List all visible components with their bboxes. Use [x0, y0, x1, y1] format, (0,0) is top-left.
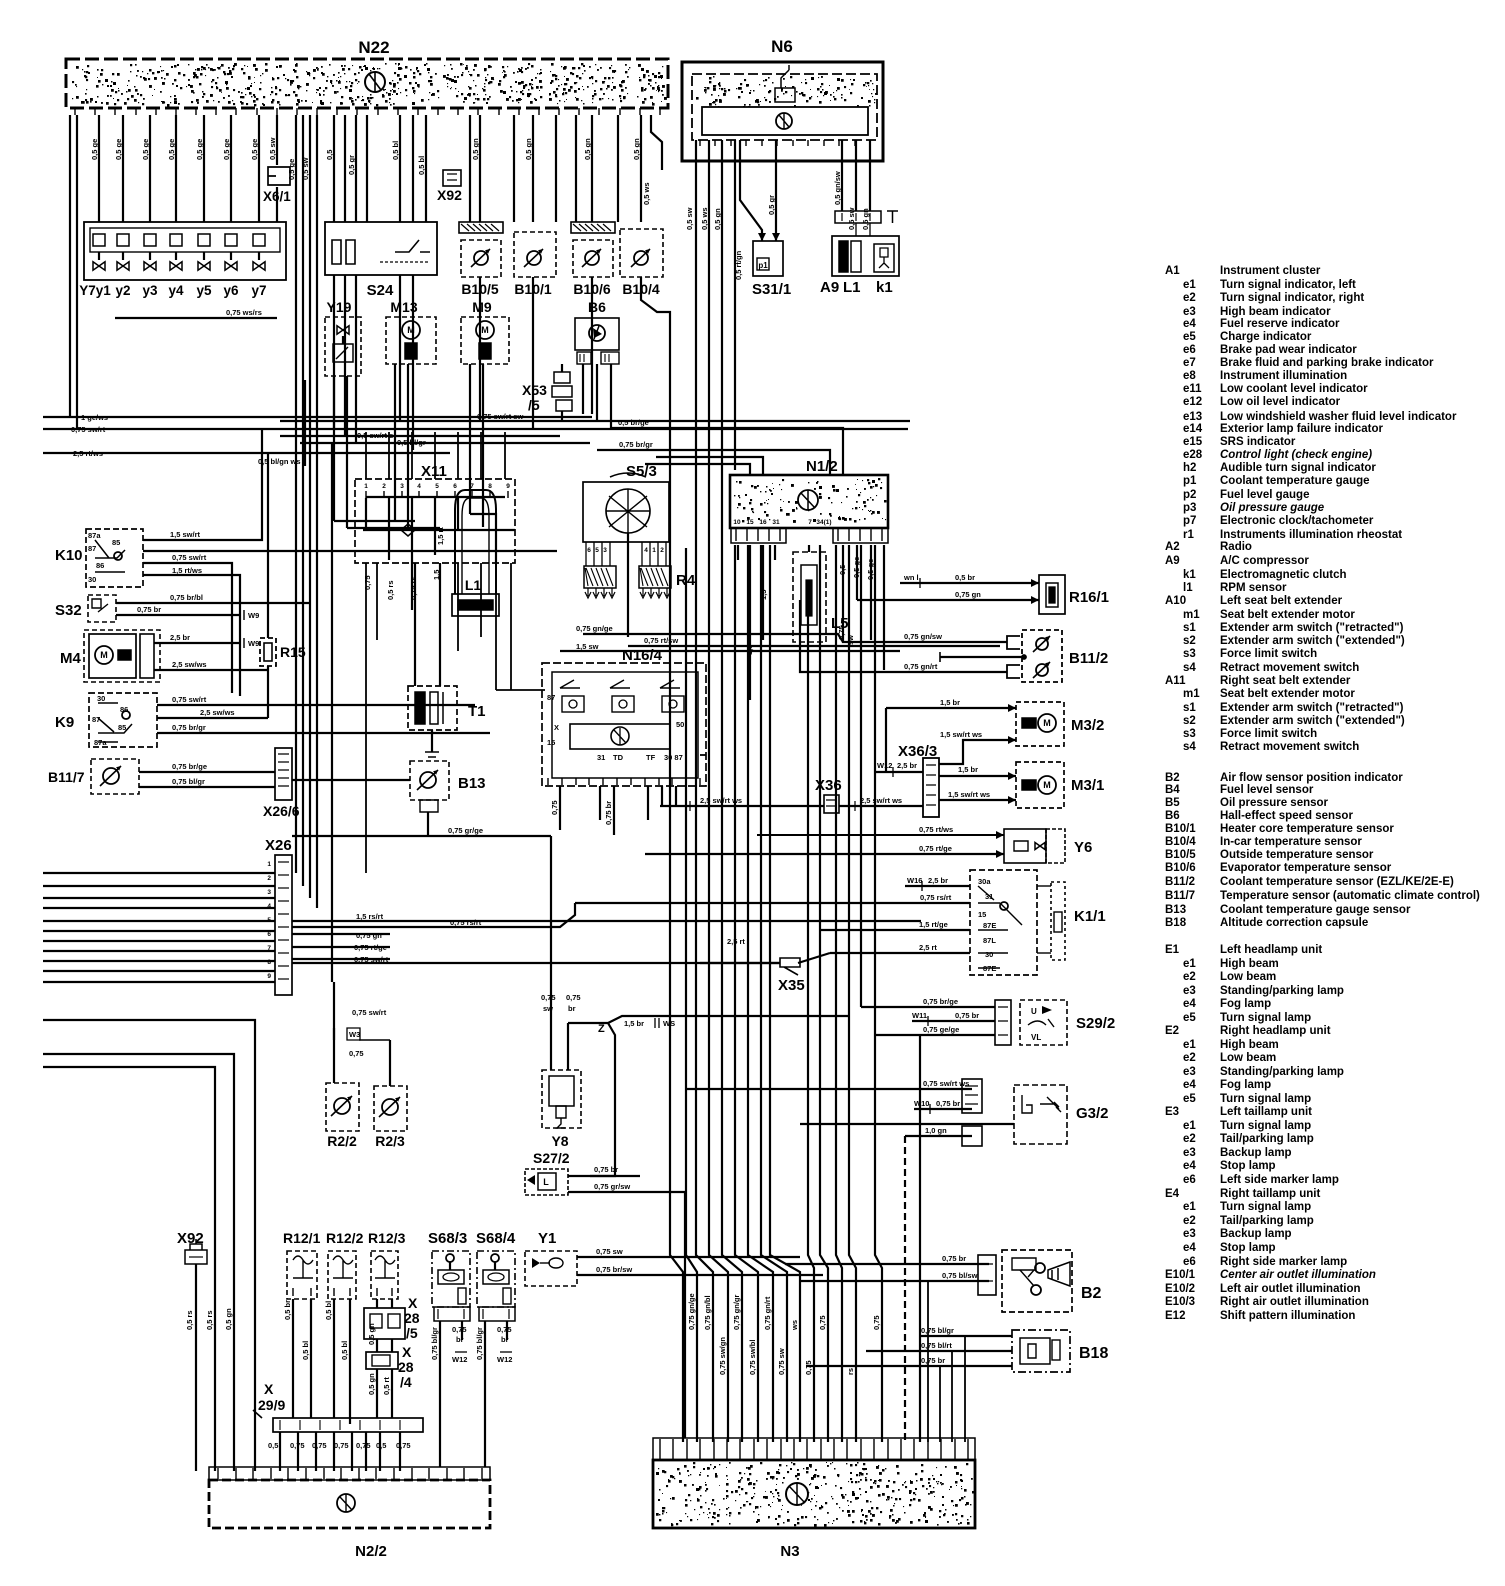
- svg-text:s2: s2: [1183, 715, 1196, 727]
- svg-text:0,5 ge: 0,5 ge: [222, 139, 231, 160]
- wire 2,5 rt/ws feeder: [43, 452, 450, 454]
- svg-text:e4: e4: [1183, 1242, 1196, 1254]
- svg-text:2,5 br: 2,5 br: [170, 633, 190, 642]
- svg-text:Left air outlet illumination: Left air outlet illumination: [1220, 1283, 1361, 1295]
- svg-text:Retract movement switch: Retract movement switch: [1220, 662, 1359, 674]
- svg-text:B11/2: B11/2: [1165, 876, 1195, 888]
- outside temperature sensor B10/5: [459, 222, 503, 233]
- wire 1 ge/ws feeder: [43, 416, 592, 418]
- svg-text:High beam indicator: High beam indicator: [1220, 306, 1331, 318]
- svg-text:0,75 rs: 0,75 rs: [409, 576, 418, 600]
- svg-text:N1/2: N1/2: [806, 458, 838, 475]
- svg-text:Altitude correction capsule: Altitude correction capsule: [1220, 917, 1368, 929]
- connector X92 upper: [469, 115, 471, 222]
- svg-text:Instrument illumination: Instrument illumination: [1220, 370, 1347, 382]
- svg-text:/5: /5: [406, 1325, 418, 1341]
- svg-text:A/C compressor: A/C compressor: [1220, 555, 1309, 567]
- svg-text:0,5 bl: 0,5 bl: [324, 1301, 333, 1320]
- svg-text:0,5 gn: 0,5 gn: [524, 138, 533, 160]
- svg-text:7: 7: [470, 483, 474, 490]
- svg-text:1,5 br: 1,5 br: [624, 1019, 644, 1028]
- relay K1/1: [970, 870, 1037, 975]
- svg-text:Fuel level gauge: Fuel level gauge: [1220, 489, 1309, 501]
- wires N6 down to S31/1: [740, 140, 762, 241]
- svg-text:0,5: 0,5: [268, 1441, 278, 1450]
- svg-text:0,5 sw: 0,5 sw: [685, 207, 694, 230]
- svg-text:0,5 ge: 0,5 ge: [287, 159, 296, 180]
- left feeder bus wires: [43, 872, 275, 874]
- svg-text:L: L: [543, 1177, 549, 1187]
- svg-text:0,75 rt/ge: 0,75 rt/ge: [919, 844, 952, 853]
- svg-text:R16/1: R16/1: [1069, 589, 1109, 606]
- seat belt extender motor M3/2: [1016, 702, 1064, 746]
- svg-text:X: X: [554, 723, 559, 732]
- svg-text:Force limit switch: Force limit switch: [1220, 728, 1317, 740]
- wire to R2/2: [333, 982, 335, 1083]
- svg-text:p1: p1: [1183, 475, 1197, 487]
- svg-text:Turn signal indicator, right: Turn signal indicator, right: [1220, 292, 1364, 304]
- svg-text:y3: y3: [142, 283, 158, 298]
- svg-text:N22: N22: [358, 38, 389, 57]
- wire 0,75 gn/ge: [583, 634, 843, 642]
- wires Y1 right: [577, 1256, 800, 1258]
- svg-text:1,5: 1,5: [745, 645, 754, 655]
- wires M3/2: [1008, 704, 1016, 804]
- seat belt extender motor M3/1: [1016, 762, 1064, 808]
- svg-text:0,75 br: 0,75 br: [942, 1254, 966, 1263]
- wire 2,5 rt to X35: [700, 962, 780, 964]
- svg-text:1,5: 1,5: [759, 590, 768, 600]
- svg-text:Instruments illumination rheos: Instruments illumination rheostat: [1220, 529, 1402, 541]
- svg-text:0,75: 0,75: [334, 1441, 349, 1450]
- svg-text:87: 87: [547, 693, 555, 702]
- svg-text:Air flow sensor position indic: Air flow sensor position indicator: [1220, 772, 1403, 784]
- svg-text:N3: N3: [780, 1543, 799, 1560]
- svg-text:Fog lamp: Fog lamp: [1220, 1079, 1271, 1091]
- svg-text:0,75: 0,75: [804, 1360, 813, 1375]
- connector X35: [780, 958, 800, 975]
- X11 horizontal bus: [366, 496, 505, 498]
- svg-text:Audible turn signal indicator: Audible turn signal indicator: [1220, 462, 1376, 474]
- svg-text:0,5 gn: 0,5 gn: [471, 138, 480, 160]
- svg-text:0,75 sw/rt: 0,75 sw/rt: [172, 695, 207, 704]
- svg-text:0,5 gn: 0,5 gn: [367, 1323, 376, 1345]
- svg-text:E10/2: E10/2: [1165, 1283, 1195, 1295]
- svg-text:e1: e1: [1183, 1039, 1196, 1051]
- svg-text:0,5 bl: 0,5 bl: [391, 141, 400, 160]
- svg-text:0,5 ge: 0,5 ge: [141, 139, 150, 160]
- svg-text:0,75 br/gr: 0,75 br/gr: [619, 440, 653, 449]
- svg-text:31: 31: [772, 519, 780, 526]
- svg-text:30: 30: [97, 694, 105, 703]
- svg-text:Turn signal indicator, left: Turn signal indicator, left: [1220, 279, 1356, 291]
- svg-text:0,75 rs/rt: 0,75 rs/rt: [920, 893, 952, 902]
- N16/4 bottom wire drops: [559, 786, 561, 830]
- svg-text:e1: e1: [1183, 1201, 1196, 1213]
- svg-text:e5: e5: [1183, 1012, 1196, 1024]
- corridor wire 8: [761, 545, 787, 1442]
- svg-text:M: M: [481, 325, 489, 335]
- wire N22 right pins to corridor: [651, 115, 662, 170]
- svg-text:Electronic clock/tachometer: Electronic clock/tachometer: [1220, 515, 1374, 527]
- A/C compressor A9 with clutch k1: [832, 236, 899, 276]
- svg-text:Tail/parking lamp: Tail/parking lamp: [1220, 1215, 1314, 1227]
- svg-text:0,75: 0,75: [497, 1325, 512, 1334]
- left edge feeder verticals: [69, 115, 71, 417]
- svg-text:R2/2: R2/2: [327, 1133, 357, 1149]
- svg-text:Force limit switch: Force limit switch: [1220, 648, 1317, 660]
- svg-text:0,75 sw/bl: 0,75 sw/bl: [748, 1340, 757, 1375]
- svg-text:0,5 ws: 0,5 ws: [700, 207, 709, 230]
- in-car temperature sensor B10/4: [620, 229, 663, 277]
- svg-text:Y6: Y6: [1074, 839, 1092, 856]
- wire 2,5 sw/rt ws through X36: [660, 805, 824, 807]
- long mid vertical drops to X26 bus: [295, 115, 297, 873]
- long wire left-bottom 2: [43, 1054, 234, 1471]
- valve unit Y8: [542, 1070, 581, 1128]
- svg-text:S32: S32: [55, 602, 82, 619]
- heater core temperature sensor B10/1: [514, 232, 556, 277]
- svg-text:0,75 gn/ge: 0,75 gn/ge: [576, 624, 613, 633]
- svg-text:A9: A9: [820, 279, 839, 296]
- svg-text:87: 87: [92, 715, 100, 724]
- svg-text:e4: e4: [1183, 1160, 1196, 1172]
- svg-text:4: 4: [417, 483, 421, 490]
- svg-text:1,0 gn: 1,0 gn: [925, 1126, 947, 1135]
- wires below N1/2 left group: [737, 545, 739, 560]
- svg-text:Oil pressure sensor: Oil pressure sensor: [1220, 797, 1329, 809]
- svg-text:Z: Z: [598, 1023, 605, 1035]
- corridor wire 14: [860, 545, 862, 1007]
- svg-text:e28: e28: [1183, 449, 1203, 461]
- svg-text:3: 3: [267, 889, 271, 896]
- wires X29/9 down to N2/2: [279, 1432, 281, 1471]
- wire S5/3 center down: [627, 533, 629, 637]
- svg-text:0,75 gn/sw: 0,75 gn/sw: [904, 632, 942, 641]
- bus wires continuing to right side: [292, 962, 780, 964]
- svg-text:50: 50: [676, 720, 684, 729]
- svg-text:0,75: 0,75: [349, 1049, 364, 1058]
- svg-text:0,5 sw: 0,5 sw: [301, 157, 310, 180]
- wire drops B10 sensors down: [479, 277, 481, 421]
- svg-text:85: 85: [112, 538, 120, 547]
- svg-text:E2: E2: [1165, 1025, 1179, 1037]
- svg-text:l1: l1: [1183, 582, 1193, 594]
- svg-text:L1: L1: [843, 279, 861, 296]
- svg-text:W16: W16: [907, 876, 922, 885]
- sensor R2/2: [326, 1083, 359, 1131]
- resistor R16/1: [900, 582, 1039, 584]
- wires X11 down: [365, 498, 367, 530]
- wire 0,5 bl/gr: [300, 442, 590, 444]
- svg-text:1,5 rt/ws: 1,5 rt/ws: [172, 566, 202, 575]
- mid vertical drops right of X11: [457, 563, 459, 651]
- svg-text:Charge indicator: Charge indicator: [1220, 331, 1312, 343]
- svg-text:e4: e4: [1183, 1079, 1196, 1091]
- svg-text:e14: e14: [1183, 423, 1203, 435]
- svg-text:Left taillamp unit: Left taillamp unit: [1220, 1106, 1312, 1118]
- svg-text:Y7y1: Y7y1: [79, 283, 111, 298]
- svg-text:0,75 rt/ws: 0,75 rt/ws: [919, 825, 953, 834]
- svg-text:wn l: wn l: [903, 573, 919, 582]
- svg-text:M: M: [1043, 718, 1051, 728]
- svg-text:E4: E4: [1165, 1188, 1180, 1200]
- svg-text:T1: T1: [468, 703, 486, 720]
- svg-text:M: M: [1043, 780, 1051, 790]
- wire links into T1 verticals: [334, 520, 415, 522]
- svg-text:Temperature sensor (automatic: Temperature sensor (automatic climate co…: [1220, 890, 1480, 902]
- wire S27/2 pin1: [568, 1175, 640, 1177]
- corridor wire 15: [875, 545, 882, 1442]
- long wire left-bottom 3: [43, 1067, 215, 1471]
- svg-text:X35: X35: [778, 977, 805, 994]
- svg-text:E3: E3: [1165, 1106, 1179, 1118]
- svg-text:0,5: 0,5: [838, 565, 847, 575]
- svg-text:0,75 bl/gr: 0,75 bl/gr: [475, 1327, 484, 1360]
- svg-text:p1: p1: [758, 261, 768, 270]
- sensor R2/3: [389, 1040, 391, 1086]
- svg-text:Center air outlet illumination: Center air outlet illumination: [1220, 1269, 1376, 1281]
- N6 pin row: [699, 140, 701, 146]
- wire Z down to S27/2: [590, 1023, 615, 1176]
- wire S27/2 pin2 0,75 gr/sw: [568, 1192, 685, 1438]
- wire B13 to X26/6: [292, 779, 410, 781]
- svg-text:E10/3: E10/3: [1165, 1296, 1195, 1308]
- svg-text:0,75 ge/ge: 0,75 ge/ge: [923, 1025, 959, 1034]
- svg-text:M4: M4: [60, 650, 81, 667]
- N3 bottom dashed note: [653, 1527, 975, 1529]
- svg-text:Turn signal lamp: Turn signal lamp: [1220, 1093, 1311, 1105]
- svg-text:X36: X36: [815, 777, 842, 794]
- wire drops B6 down: [582, 364, 584, 414]
- engine control module N3: [653, 1438, 975, 1460]
- wire drop X11 left down: [365, 563, 367, 873]
- ignition coil T1: [408, 686, 457, 730]
- svg-text:M9: M9: [472, 299, 492, 315]
- svg-text:s3: s3: [1183, 728, 1196, 740]
- svg-text:W10: W10: [914, 1099, 929, 1108]
- svg-text:/4: /4: [400, 1374, 412, 1390]
- svg-text:s1: s1: [1183, 622, 1196, 634]
- svg-text:s4: s4: [1183, 741, 1196, 753]
- svg-text:L1: L1: [465, 577, 482, 593]
- svg-text:0,5: 0,5: [376, 1441, 386, 1450]
- svg-text:X11: X11: [421, 463, 447, 480]
- svg-text:X6/1: X6/1: [263, 189, 291, 204]
- svg-text:86: 86: [96, 561, 104, 570]
- svg-text:Right air outlet illumination: Right air outlet illumination: [1220, 1296, 1369, 1308]
- wires down to Y8: [550, 836, 552, 1070]
- svg-text:0,75 sw/rt: 0,75 sw/rt: [172, 553, 207, 562]
- svg-text:2,5 sw/rt ws: 2,5 sw/rt ws: [700, 796, 742, 805]
- svg-text:sw: sw: [846, 635, 855, 645]
- svg-text:0,5 ge: 0,5 ge: [195, 139, 204, 160]
- svg-text:87: 87: [88, 544, 96, 553]
- svg-text:S68/4: S68/4: [476, 1230, 516, 1247]
- svg-text:e8: e8: [1183, 370, 1196, 382]
- svg-text:X26/6: X26/6: [263, 803, 300, 819]
- wire T1 down to ground: [431, 730, 433, 752]
- wire K1/1 right side: [1037, 885, 1051, 887]
- svg-text:y2: y2: [115, 283, 130, 298]
- svg-text:s3: s3: [1183, 648, 1196, 660]
- svg-text:Stop lamp: Stop lamp: [1220, 1160, 1276, 1172]
- svg-text:2,5 rt: 2,5 rt: [919, 943, 937, 952]
- coolant temperature gauge sensor B13: [410, 761, 449, 800]
- svg-text:0,75: 0,75: [837, 625, 846, 640]
- svg-text:W12: W12: [877, 761, 892, 770]
- X11 riser stubs to feeder lines: [365, 432, 367, 479]
- svg-text:r1: r1: [1183, 529, 1194, 541]
- svg-text:0,75 gn: 0,75 gn: [955, 590, 981, 599]
- svg-text:Turn signal lamp: Turn signal lamp: [1220, 1012, 1311, 1024]
- svg-text:M3/1: M3/1: [1071, 777, 1104, 794]
- svg-text:e3: e3: [1183, 985, 1196, 997]
- svg-text:Turn signal lamp: Turn signal lamp: [1220, 1120, 1311, 1132]
- svg-text:0,5 br/ge: 0,5 br/ge: [618, 418, 649, 427]
- svg-text:31: 31: [985, 892, 993, 901]
- wire X6/1 branch: [276, 115, 278, 165]
- long wire left-bottom 1: [43, 1020, 255, 1471]
- N1/2 lower pin connectors: [731, 528, 786, 543]
- svg-text:k1: k1: [1183, 569, 1196, 581]
- svg-text:87a: 87a: [88, 531, 101, 540]
- svg-text:0,75 gr/sw: 0,75 gr/sw: [594, 1182, 630, 1191]
- svg-text:1,5 sw/rt: 1,5 sw/rt: [170, 530, 201, 539]
- svg-text:p7: p7: [1183, 515, 1196, 527]
- svg-text:p2: p2: [1183, 489, 1196, 501]
- corridor wire 9: [770, 545, 800, 1442]
- svg-text:0,75 br/ge: 0,75 br/ge: [172, 762, 207, 771]
- svg-text:e2: e2: [1183, 1052, 1196, 1064]
- svg-text:0,75: 0,75: [363, 575, 372, 590]
- svg-text:B18: B18: [1079, 1345, 1108, 1362]
- svg-text:S27/2: S27/2: [533, 1150, 570, 1166]
- svg-text:30a: 30a: [978, 877, 991, 886]
- svg-text:0,75 gn/gr: 0,75 gn/gr: [732, 1294, 741, 1330]
- wires S68/4 down: [484, 1321, 486, 1467]
- svg-text:X26: X26: [265, 837, 292, 854]
- svg-text:30: 30: [88, 575, 96, 584]
- svg-text:ws: ws: [790, 1320, 799, 1331]
- corridor dashed wire: [904, 1136, 906, 1442]
- svg-text:Low beam: Low beam: [1220, 971, 1276, 983]
- svg-text:e3: e3: [1183, 306, 1196, 318]
- svg-text:0,5 gn: 0,5 gn: [583, 138, 592, 160]
- oil pressure switch S31/1: [758, 233, 780, 241]
- svg-text:U: U: [1031, 1007, 1037, 1016]
- svg-text:e15: e15: [1183, 436, 1203, 448]
- connector strip above A9: [835, 211, 881, 223]
- svg-text:B13: B13: [458, 775, 486, 792]
- evaporator temperature sensor B10/6: [571, 222, 615, 233]
- air flow sensor position indicator B2: [978, 1255, 996, 1295]
- svg-text:0,75: 0,75: [452, 1325, 467, 1334]
- svg-text:0,75 gn: 0,75 gn: [356, 931, 382, 940]
- svg-text:2,5 br: 2,5 br: [897, 761, 917, 770]
- wire drops S24 down: [333, 275, 335, 429]
- svg-text:3: 3: [603, 547, 607, 554]
- svg-text:87E: 87E: [983, 964, 996, 973]
- svg-text:e2: e2: [1183, 971, 1196, 983]
- wire 0,75 rt/sw: [628, 645, 1000, 647]
- svg-text:R12/1: R12/1: [283, 1230, 321, 1246]
- wire 0,5 sw/rt s: [280, 435, 560, 437]
- svg-text:y7: y7: [251, 283, 266, 298]
- svg-text:0,75: 0,75: [541, 993, 556, 1002]
- svg-text:85: 85: [118, 723, 126, 732]
- svg-text:0,75 gn/bl: 0,75 gn/bl: [703, 1295, 712, 1330]
- svg-text:e5: e5: [1183, 331, 1196, 343]
- svg-text:s1: s1: [1183, 702, 1196, 714]
- svg-text:Right seat belt extender: Right seat belt extender: [1220, 675, 1351, 687]
- svg-text:y6: y6: [223, 283, 239, 298]
- svg-text:Right side marker lamp: Right side marker lamp: [1220, 1256, 1347, 1268]
- svg-text:Y19: Y19: [327, 299, 352, 315]
- svg-text:15: 15: [547, 738, 555, 747]
- svg-text:Right headlamp unit: Right headlamp unit: [1220, 1025, 1331, 1037]
- svg-text:Coolant temperature gauge sens: Coolant temperature gauge sensor: [1220, 904, 1411, 916]
- svg-text:28: 28: [404, 1310, 420, 1326]
- wire drops M13 down: [394, 364, 396, 521]
- svg-text:2,5 br: 2,5 br: [928, 876, 948, 885]
- svg-text:0,75 br/gr: 0,75 br/gr: [172, 723, 206, 732]
- svg-text:Seat belt extender motor: Seat belt extender motor: [1220, 609, 1355, 621]
- wire B13 bottom drop: [427, 812, 429, 836]
- svg-text:0,75: 0,75: [396, 1441, 411, 1450]
- svg-text:B2: B2: [1081, 1285, 1102, 1302]
- svg-text:0,5 gn/sw: 0,5 gn/sw: [833, 171, 842, 205]
- svg-text:R12/3: R12/3: [368, 1230, 406, 1246]
- svg-text:Y1: Y1: [538, 1230, 556, 1247]
- svg-text:E1: E1: [1165, 944, 1180, 956]
- corridor wire S29 branch: [919, 1035, 921, 1442]
- svg-text:Instrument cluster: Instrument cluster: [1220, 265, 1321, 277]
- wire X92 down to N2/2: [195, 1264, 197, 1471]
- svg-text:Left headlamp unit: Left headlamp unit: [1220, 944, 1322, 956]
- svg-text:B13: B13: [1165, 904, 1186, 916]
- svg-text:K9: K9: [55, 714, 74, 731]
- svg-text:0,75: 0,75: [872, 1315, 881, 1330]
- svg-text:sw: sw: [543, 1004, 553, 1013]
- svg-text:Retract movement switch: Retract movement switch: [1220, 741, 1359, 753]
- svg-text:Low beam: Low beam: [1220, 1052, 1276, 1064]
- valve block Y7y1-y7: [84, 222, 286, 280]
- wire diagonal into X29/9: [253, 1410, 262, 1418]
- svg-text:0,75: 0,75: [290, 1441, 305, 1450]
- svg-text:Electromagnetic clutch: Electromagnetic clutch: [1220, 569, 1347, 581]
- svg-text:1,5 sw/rt ws: 1,5 sw/rt ws: [948, 790, 990, 799]
- svg-text:Brake fluid and parking brake: Brake fluid and parking brake indicator: [1220, 357, 1434, 369]
- svg-text:0,5 rs: 0,5 rs: [386, 580, 395, 600]
- svg-text:k1: k1: [876, 279, 893, 296]
- wires below N1/2 right group: [842, 545, 844, 583]
- svg-text:M3/2: M3/2: [1071, 717, 1104, 734]
- N16/4 switches: [560, 680, 580, 688]
- svg-text:B10/1: B10/1: [1165, 823, 1196, 835]
- wire drops M9 down: [469, 364, 471, 514]
- svg-text:Fuel reserve indicator: Fuel reserve indicator: [1220, 318, 1340, 330]
- svg-text:B10/4: B10/4: [1165, 836, 1196, 848]
- svg-text:0,75 gn/rt: 0,75 gn/rt: [904, 662, 938, 671]
- svg-text:0,5 gr: 0,5 gr: [347, 155, 356, 175]
- svg-text:0,5 gn: 0,5 gn: [713, 208, 722, 230]
- svg-text:0,75 br/ge: 0,75 br/ge: [923, 997, 958, 1006]
- svg-text:1,5 rt: 1,5 rt: [436, 527, 445, 545]
- svg-text:X: X: [264, 1381, 274, 1397]
- svg-text:0,75 bl/sw: 0,75 bl/sw: [942, 1271, 978, 1280]
- K1/1 internal contacts: [978, 886, 1022, 968]
